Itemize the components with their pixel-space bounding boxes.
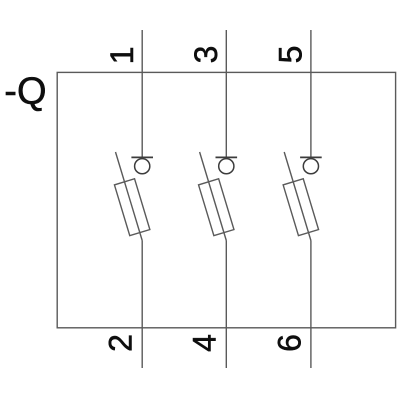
pole 3: fuse body F3	[283, 179, 318, 236]
svg-text:5: 5	[273, 46, 309, 64]
pole 1: fuse body F1	[114, 179, 149, 236]
svg-text:6: 6	[271, 334, 307, 352]
pole 3: terminal 6 bottom wire	[310, 241, 312, 369]
pole 1: hinge circle	[135, 159, 150, 174]
svg-text:-Q: -Q	[4, 71, 46, 113]
pole 2: terminal 3 top wire	[225, 30, 227, 157]
pole 1: terminal 1 top wire	[141, 30, 143, 157]
pole 2: fuse blade line	[200, 152, 227, 241]
pole 3: fixed contact bar	[300, 156, 322, 158]
pole 3: hinge circle	[303, 159, 318, 174]
pole 2: hinge circle	[219, 159, 234, 174]
pole 1: fixed contact bar	[131, 156, 153, 158]
svg-text:1: 1	[104, 47, 140, 65]
pole 1: fuse blade line	[116, 152, 143, 241]
pole 3: fuse blade line	[284, 152, 311, 241]
pole 1: terminal 2 bottom wire	[141, 241, 143, 369]
pole 2: fixed contact bar	[216, 156, 238, 158]
pole 2: fuse body F2	[199, 179, 234, 236]
svg-text:2: 2	[103, 334, 139, 352]
svg-text:4: 4	[187, 334, 223, 352]
pole 2: terminal 4 bottom wire	[225, 241, 227, 369]
enclosure box -Q outline	[57, 72, 395, 327]
pole 3: terminal 5 top wire	[310, 30, 312, 157]
svg-text:3: 3	[188, 46, 224, 64]
